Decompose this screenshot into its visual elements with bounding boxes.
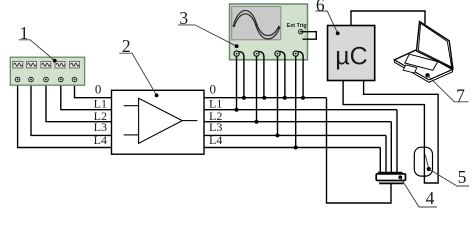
svg-text:2: 2 — [122, 36, 131, 56]
svg-text:L3: L3 — [209, 120, 222, 134]
svg-text:+: + — [304, 27, 307, 32]
svg-text:4: 4 — [426, 188, 435, 208]
svg-text:5: 5 — [458, 167, 467, 187]
svg-text:1: 1 — [20, 23, 29, 43]
svg-text:0: 0 — [95, 81, 102, 96]
svg-text:3: 3 — [179, 8, 188, 28]
svg-text:µC: µC — [335, 43, 367, 71]
svg-text:0: 0 — [209, 81, 216, 96]
svg-text:L3: L3 — [94, 120, 107, 134]
svg-text:L4: L4 — [94, 133, 107, 147]
svg-text:6: 6 — [316, 0, 325, 15]
svg-text:7: 7 — [456, 85, 465, 105]
svg-text:L4: L4 — [209, 133, 222, 147]
